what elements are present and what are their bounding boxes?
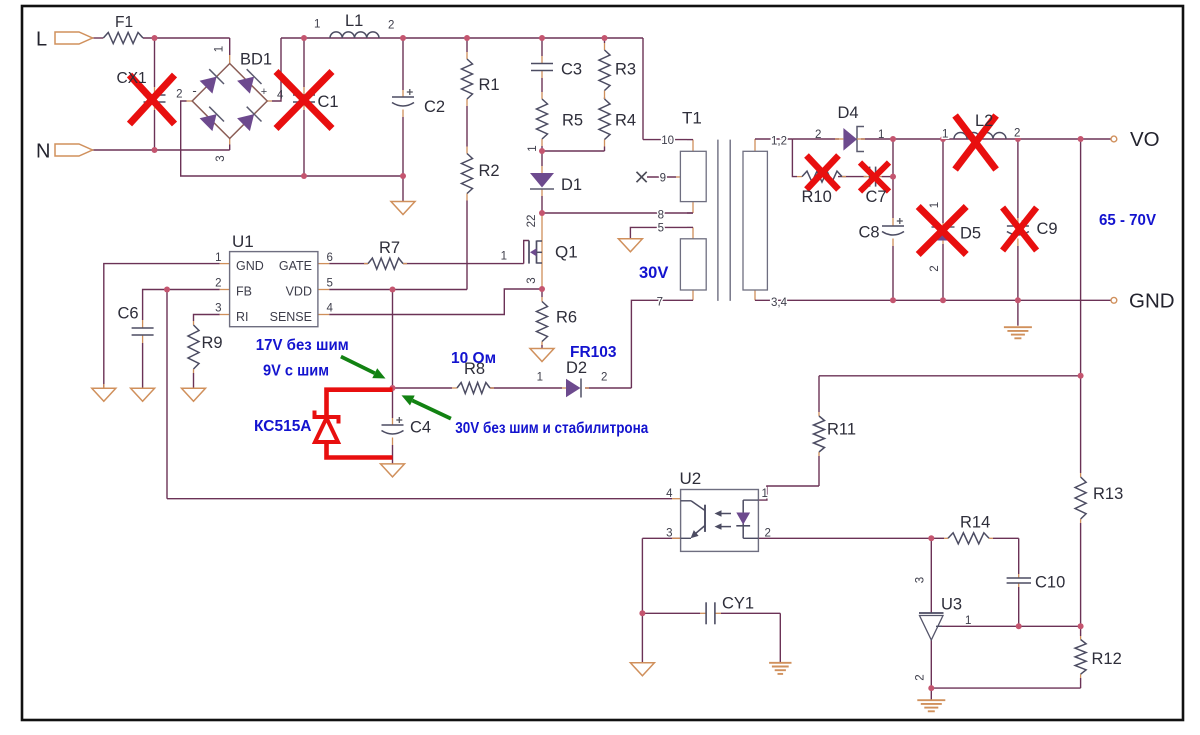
svg-text:1: 1 [929, 202, 941, 208]
svg-text:5: 5 [327, 278, 333, 290]
svg-text:R7: R7 [379, 239, 400, 257]
svg-text:1: 1 [762, 488, 768, 500]
svg-text:30V без шим и стабилитрона: 30V без шим и стабилитрона [455, 420, 648, 437]
svg-text:1: 1 [965, 615, 971, 627]
svg-text:2: 2 [765, 528, 771, 540]
svg-text:U1: U1 [232, 232, 254, 251]
svg-text:RI: RI [236, 310, 249, 324]
svg-text:SENSE: SENSE [270, 310, 312, 324]
svg-text:U3: U3 [941, 596, 962, 614]
svg-text:2: 2 [388, 20, 394, 32]
svg-text:4: 4 [666, 488, 673, 500]
svg-text:D4: D4 [838, 104, 859, 122]
svg-text:R2: R2 [479, 162, 500, 180]
svg-text:7: 7 [657, 297, 663, 309]
svg-text:2: 2 [1014, 128, 1020, 140]
svg-text:FB: FB [236, 285, 252, 299]
svg-text:3: 3 [215, 303, 221, 315]
svg-text:F1: F1 [115, 14, 133, 31]
svg-text:VDD: VDD [286, 285, 312, 299]
svg-text:GND: GND [236, 259, 264, 273]
svg-text:R3: R3 [615, 61, 636, 79]
svg-text:N: N [36, 141, 50, 163]
svg-text:2: 2 [915, 674, 927, 680]
svg-text:22: 22 [526, 215, 538, 228]
svg-text:10 Ом: 10 Ом [451, 350, 496, 367]
svg-text:C10: C10 [1035, 574, 1065, 592]
svg-text:T1: T1 [682, 109, 702, 128]
svg-text:30V: 30V [639, 264, 668, 282]
svg-text:D2: D2 [566, 359, 587, 377]
svg-text:2: 2 [815, 129, 821, 141]
svg-text:1: 1 [501, 251, 507, 263]
svg-text:R9: R9 [202, 334, 223, 352]
svg-text:10: 10 [661, 135, 674, 147]
svg-text:8: 8 [658, 210, 664, 222]
svg-text:C8: C8 [859, 224, 880, 242]
svg-text:R6: R6 [556, 309, 577, 327]
svg-text:3: 3 [666, 528, 672, 540]
svg-text:R5: R5 [562, 112, 583, 130]
svg-text:1: 1 [527, 145, 539, 151]
svg-text:1,2: 1,2 [771, 135, 787, 147]
svg-text:R10: R10 [802, 188, 832, 206]
svg-text:L2: L2 [975, 112, 993, 130]
svg-text:VO: VO [1130, 128, 1160, 151]
svg-text:GND: GND [1129, 290, 1175, 313]
svg-text:3: 3 [215, 155, 227, 161]
svg-text:9V с шим: 9V с шим [263, 363, 329, 380]
svg-text:4: 4 [327, 303, 334, 315]
svg-text:C1: C1 [318, 93, 339, 111]
svg-text:1: 1 [537, 372, 543, 384]
svg-text:BD1: BD1 [240, 51, 272, 69]
svg-text:D5: D5 [960, 225, 981, 243]
svg-text:CY1: CY1 [722, 595, 754, 613]
svg-text:C9: C9 [1037, 220, 1058, 238]
svg-text:GATE: GATE [279, 259, 312, 273]
svg-text:2: 2 [601, 372, 607, 384]
svg-text:C4: C4 [410, 419, 431, 437]
svg-text:FR103: FR103 [570, 344, 617, 361]
svg-text:C3: C3 [561, 61, 582, 79]
svg-text:L1: L1 [345, 12, 363, 30]
svg-text:1: 1 [214, 46, 226, 52]
svg-text:1: 1 [878, 129, 884, 141]
svg-text:6: 6 [327, 252, 333, 264]
svg-text:4: 4 [277, 90, 284, 102]
svg-text:2: 2 [176, 89, 182, 101]
svg-text:1: 1 [314, 19, 320, 31]
svg-text:R14: R14 [960, 514, 990, 532]
svg-text:U2: U2 [680, 469, 702, 488]
svg-text:R4: R4 [615, 112, 636, 130]
svg-text:КС515А: КС515А [254, 418, 312, 435]
svg-text:2: 2 [929, 265, 941, 271]
svg-text:3,4: 3,4 [771, 297, 788, 309]
svg-text:C7: C7 [866, 188, 887, 206]
svg-text:1: 1 [942, 129, 948, 141]
svg-text:L: L [36, 29, 47, 51]
svg-text:5: 5 [658, 223, 664, 235]
svg-text:-: - [192, 83, 196, 98]
svg-text:17V без шим: 17V без шим [256, 337, 349, 354]
svg-text:R12: R12 [1092, 650, 1122, 668]
svg-text:D1: D1 [561, 176, 582, 194]
svg-text:3: 3 [526, 277, 538, 283]
svg-text:C2: C2 [424, 98, 445, 116]
svg-text:R11: R11 [827, 421, 856, 439]
svg-text:R1: R1 [479, 76, 500, 94]
svg-text:1: 1 [215, 252, 221, 264]
svg-text:C6: C6 [118, 305, 139, 323]
svg-text:3: 3 [915, 577, 927, 583]
svg-text:R13: R13 [1093, 485, 1123, 503]
svg-text:+: + [261, 86, 267, 98]
svg-text:65 - 70V: 65 - 70V [1099, 212, 1156, 229]
svg-text:9: 9 [660, 173, 666, 185]
svg-text:CX1: CX1 [117, 70, 147, 87]
svg-text:Q1: Q1 [555, 243, 578, 262]
svg-text:2: 2 [215, 278, 221, 290]
